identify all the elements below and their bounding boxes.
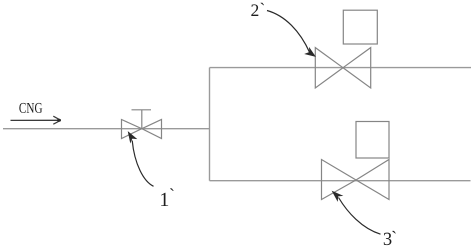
label 3`: [384, 231, 396, 245]
valve 2` (actuated valve): [315, 10, 377, 88]
leader arrow to valve 3`: [332, 191, 380, 234]
label CNG: [19, 103, 42, 113]
leader arrow to valve 1`: [128, 132, 153, 186]
valve 1` (manual valve): [122, 110, 162, 139]
label 1`: [161, 188, 173, 206]
leader arrow to valve 2`: [267, 11, 315, 57]
wire: branch header vertical: [209, 68, 211, 181]
wire: bottom branch pipe: [210, 180, 471, 182]
wire: top branch pipe: [210, 67, 472, 69]
flow arrow: [11, 116, 62, 124]
valve 3` (actuated valve): [322, 122, 390, 200]
wire: main inlet pipe: [3, 128, 210, 130]
label 2`: [251, 3, 264, 16]
